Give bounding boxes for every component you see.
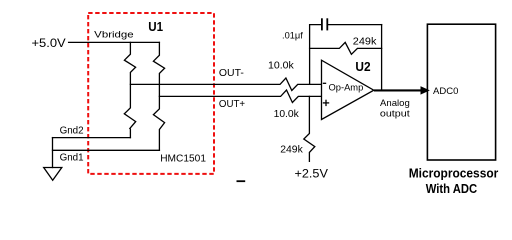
svg-text:U2: U2 (355, 59, 370, 74)
svg-text:output: output (380, 108, 410, 119)
svg-text:Gnd1: Gnd1 (60, 152, 84, 163)
svg-text:Op-Amp: Op-Amp (329, 82, 364, 93)
svg-text:ADC0: ADC0 (433, 86, 458, 97)
svg-text:Microprocessor: Microprocessor (409, 165, 499, 180)
svg-text:HMC1501: HMC1501 (160, 153, 206, 165)
svg-text:With ADC: With ADC (426, 181, 478, 196)
svg-text:Analog: Analog (380, 98, 410, 109)
svg-text:+5.0V: +5.0V (32, 36, 67, 50)
svg-text:OUT+: OUT+ (219, 99, 245, 110)
svg-text:OUT-: OUT- (219, 68, 244, 79)
svg-text:Vbridge: Vbridge (94, 30, 134, 41)
svg-text:10.0k: 10.0k (268, 59, 295, 71)
svg-text:+2.5V: +2.5V (295, 167, 329, 181)
svg-text:Gnd2: Gnd2 (60, 126, 84, 137)
svg-text:10.0k: 10.0k (274, 108, 300, 120)
svg-text:U1: U1 (148, 19, 163, 34)
svg-text:.01μf: .01μf (282, 30, 303, 41)
svg-text:249k: 249k (353, 36, 378, 47)
svg-text:249k: 249k (280, 144, 303, 156)
